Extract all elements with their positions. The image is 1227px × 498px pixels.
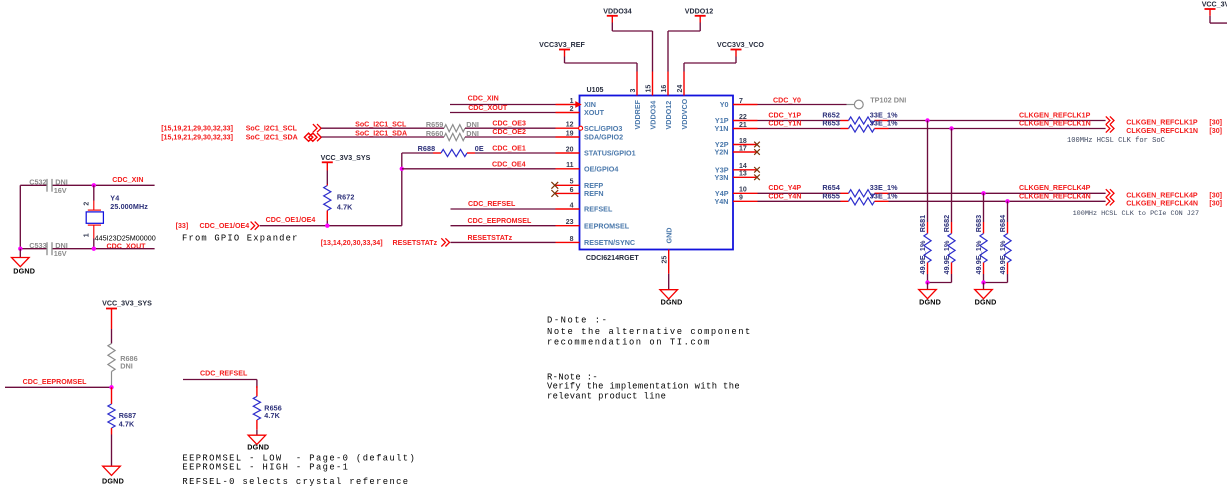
svg-text:VDDO34: VDDO34 xyxy=(648,101,657,130)
svg-text:VCC_3V3_SYS: VCC_3V3_SYS xyxy=(321,154,371,162)
wire left vertical (C532/C533 to DGND) xyxy=(19,185,21,248)
svg-text:1: 1 xyxy=(84,233,91,237)
svg-text:25.000MHz: 25.000MHz xyxy=(110,202,148,211)
U105 pin 12 (SCL/GPIO3) xyxy=(556,122,623,133)
svg-text:Y1N: Y1N xyxy=(715,124,729,133)
svg-text:VCC3V3_REF: VCC3V3_REF xyxy=(539,41,585,49)
node junction Y1N / R682 xyxy=(949,126,953,130)
svg-text:49.9E_1%: 49.9E_1% xyxy=(998,240,1007,274)
svg-text:0E: 0E xyxy=(475,144,484,153)
svg-text:VDDO12: VDDO12 xyxy=(685,7,713,15)
U105 pin 19 (SDA/GPIO2) xyxy=(556,130,624,141)
wire CDC_EEPROMSEL to pin 23 xyxy=(451,217,556,226)
resistor R682 49.9E_1% xyxy=(942,129,955,283)
svg-text:CDC_REFSEL: CDC_REFSEL xyxy=(468,200,516,208)
wire SoC_I2C1_SCL xyxy=(321,120,444,128)
node junction CDC_XIN / crystal pin 2 xyxy=(92,183,96,187)
svg-text:16V: 16V xyxy=(54,186,67,195)
power VCC_3V3_SYS (EEPROMSEL pull-up) xyxy=(102,300,152,344)
svg-text:14: 14 xyxy=(739,163,747,170)
U105 pin 5 (REFP) xyxy=(556,179,604,190)
no-connect X pin 17 Y2N xyxy=(754,149,760,155)
node junction R683/R684 tie xyxy=(981,280,985,284)
ground DGND (R683/R684) xyxy=(975,283,997,307)
svg-text:CDC_OE1/OE4: CDC_OE1/OE4 xyxy=(266,216,316,224)
resistor R672 4.7K xyxy=(324,171,355,226)
svg-text:SoC_I2C1_SDA: SoC_I2C1_SDA xyxy=(246,134,298,142)
off-page connector SoC_I2C1_SCL xyxy=(161,124,321,133)
svg-text:4.7K: 4.7K xyxy=(119,419,135,428)
U105 pin 3 (VDDREF) xyxy=(630,72,642,130)
wire R681-R682 bottom tie xyxy=(928,282,952,284)
off-page connector SoC_I2C1_SDA xyxy=(161,133,321,141)
svg-text:2: 2 xyxy=(84,202,91,206)
node junction Y1P / R681 xyxy=(925,118,929,122)
svg-text:CDC_OE1/OE4: CDC_OE1/OE4 xyxy=(200,222,250,230)
node junction riser / CDC_OE4 branch xyxy=(400,167,404,171)
svg-text:CDCI6214RGET: CDCI6214RGET xyxy=(586,254,639,262)
no-connect X pin 13 Y3N xyxy=(754,175,760,181)
svg-text:[30]: [30] xyxy=(1209,119,1222,127)
svg-text:49.9E_1%: 49.9E_1% xyxy=(942,240,951,274)
power VCC3V3_VCO (pin 24) xyxy=(684,41,764,72)
power VCC_3V3 (top right corner, clipped) xyxy=(1202,0,1227,23)
power VCC3V3_REF (pin 3) xyxy=(539,41,637,72)
svg-text:R681: R681 xyxy=(918,215,927,233)
svg-text:CDC_Y0: CDC_Y0 xyxy=(773,96,801,104)
svg-text:4.7K: 4.7K xyxy=(337,202,353,211)
svg-text:CLKGEN_REFCLK4P: CLKGEN_REFCLK4P xyxy=(1126,191,1198,199)
svg-text:12: 12 xyxy=(566,122,574,129)
wire CDC_XIN to pin 1 xyxy=(450,95,556,105)
svg-text:XOUT: XOUT xyxy=(584,108,605,117)
svg-text:R688: R688 xyxy=(418,144,436,153)
svg-text:OE/GPIO4: OE/GPIO4 xyxy=(584,164,618,173)
svg-text:REFSEL: REFSEL xyxy=(584,205,613,214)
svg-text:CDC_OE1: CDC_OE1 xyxy=(492,144,526,152)
svg-text:CDC_OE2: CDC_OE2 xyxy=(492,128,526,136)
svg-text:[30]: [30] xyxy=(1209,127,1222,135)
svg-text:VDDO34: VDDO34 xyxy=(603,7,631,15)
svg-text:DNI: DNI xyxy=(120,361,133,370)
wire SoC_I2C1_SDA xyxy=(321,129,444,137)
wire CDC_EEPROMSEL (bottom left) xyxy=(5,378,112,387)
no-connect X pin 18 Y2P xyxy=(754,142,760,148)
svg-text:8: 8 xyxy=(570,236,574,243)
wire/resistor R653 33E_1% CDC_Y1N -> CLKGEN_REFCLK1N xyxy=(758,118,1223,134)
crystal Y4 25.000MHz xyxy=(84,185,156,248)
svg-text:[30]: [30] xyxy=(1209,191,1222,199)
text D-Note xyxy=(547,316,752,348)
svg-text:SCL/GPIO3: SCL/GPIO3 xyxy=(584,124,622,133)
node junction Y4P / R683 xyxy=(981,191,985,195)
svg-text:CDC_Y1P: CDC_Y1P xyxy=(768,111,801,119)
svg-text:CLKGEN_REFCLK4N: CLKGEN_REFCLK4N xyxy=(1019,192,1091,200)
U105 pin 22 (Y1P) xyxy=(715,114,758,125)
text R-Note xyxy=(547,373,740,402)
U105 pin 6 (REFN) xyxy=(556,187,604,198)
svg-text:CDC_Y1N: CDC_Y1N xyxy=(768,119,801,127)
U105 pin 8 (RESETN/SYNC) xyxy=(556,236,636,247)
power VDDO12 (pin 16) xyxy=(668,7,713,71)
svg-text:15: 15 xyxy=(645,85,652,93)
svg-text:TP102 DNI: TP102 DNI xyxy=(870,95,906,104)
U105 pin 25 (GND) xyxy=(662,228,674,274)
wire OE1/OE4 vertical riser xyxy=(401,153,403,226)
wire CDC_OE3 to pin 12 xyxy=(465,119,556,128)
svg-text:R682: R682 xyxy=(942,215,951,233)
svg-text:R683: R683 xyxy=(974,215,983,233)
svg-text:445I23D25M00000: 445I23D25M00000 xyxy=(95,234,156,243)
svg-text:REFN: REFN xyxy=(584,189,604,198)
svg-text:4.7K: 4.7K xyxy=(264,411,280,420)
svg-text:CDC_OE4: CDC_OE4 xyxy=(492,160,526,168)
wire R683-R684 bottom tie xyxy=(984,282,1008,284)
svg-text:C533: C533 xyxy=(29,241,46,250)
off-page connector CDC_OE1/OE4 from GPIO expander xyxy=(176,222,259,230)
svg-text:Verify the implementation with: Verify the implementation with the xyxy=(547,382,740,392)
resistor R660 (DNI) xyxy=(426,129,479,141)
svg-text:100MHz HCSL CLK to PCIe CON J2: 100MHz HCSL CLK to PCIe CON J27 xyxy=(1073,210,1199,218)
wire CDC_OE1 to pin 20 xyxy=(475,144,556,153)
svg-text:DGND: DGND xyxy=(975,297,997,306)
svg-text:STATUS/GPIO1: STATUS/GPIO1 xyxy=(584,149,636,158)
resistor R684 49.9E_1% xyxy=(998,201,1011,282)
U105 pin 17 (Y2N) xyxy=(715,145,758,156)
svg-text:CDC_Y4N: CDC_Y4N xyxy=(768,192,801,200)
wire/resistor R652 33E_1% CDC_Y1P -> CLKGEN_REFCLK1P xyxy=(758,110,1223,126)
wire/resistor R654 33E_1% CDC_Y4P -> CLKGEN_REFCLK4P xyxy=(758,183,1223,199)
wire RESETSTATz to pin 8 xyxy=(451,234,556,242)
U105 pin 24 (VDDVCO) xyxy=(677,72,689,130)
node junction CDC_XOUT / crystal pin 1 xyxy=(92,247,96,251)
svg-text:11: 11 xyxy=(566,162,574,169)
node junction R686/R687/EEPROMSEL xyxy=(109,385,113,389)
testpoint TP102 DNI xyxy=(847,95,907,109)
U105 pin 2 (XOUT) xyxy=(556,106,605,117)
U105 pin 15 (VDDO34) xyxy=(645,72,657,130)
node junction R672 / OE1-OE4 wire xyxy=(325,224,329,228)
resistor R656 4.7K xyxy=(253,386,282,435)
wire CDC_OE4 to pin 11 xyxy=(402,160,556,169)
svg-text:Y3N: Y3N xyxy=(715,173,729,182)
svg-text:CLKGEN_REFCLK1N: CLKGEN_REFCLK1N xyxy=(1126,127,1198,135)
svg-text:RESETN/SYNC: RESETN/SYNC xyxy=(584,238,635,247)
svg-text:10: 10 xyxy=(739,187,747,194)
svg-text:recommendation on TI.com: recommendation on TI.com xyxy=(547,337,711,347)
resistor R681 49.9E_1% xyxy=(918,121,931,283)
svg-text:REFSEL-0 selects crystal refer: REFSEL-0 selects crystal reference xyxy=(182,477,409,487)
net label CDC_XIN (crystal) xyxy=(112,176,143,184)
svg-text:D-Note :-: D-Note :- xyxy=(547,316,608,326)
wire CDC_OE2 to pin 19 xyxy=(465,128,556,137)
U105 pin 14 (Y3P) xyxy=(715,163,758,174)
svg-text:DGND: DGND xyxy=(247,442,269,451)
U105 pin 1 (XIN) xyxy=(556,98,596,109)
power VCC_3V3_SYS (pull-up) xyxy=(321,154,371,171)
resistor R686 DNI xyxy=(108,344,138,388)
svg-text:DGND: DGND xyxy=(102,477,124,486)
U105 pin 16 (VDDO12) xyxy=(661,72,673,130)
wire CDC_XOUT bottom segment (crystal) xyxy=(20,248,154,250)
ground DGND (R687) xyxy=(102,466,124,485)
off-page connector RESETSTATz xyxy=(321,238,450,247)
svg-text:VCC3V3_VCO: VCC3V3_VCO xyxy=(717,41,764,49)
wire to R688 xyxy=(402,152,433,154)
svg-text:16V: 16V xyxy=(54,249,67,258)
text EEPROMSEL notes xyxy=(182,454,416,473)
svg-text:[13,14,20,30,33,34]: [13,14,20,30,33,34] xyxy=(321,239,383,247)
text 100MHz HCSL CLK to PCIe CON J27 xyxy=(1073,210,1199,218)
power VDDO34 (pin 15) xyxy=(603,7,652,71)
svg-text:RESETSTATz: RESETSTATz xyxy=(468,234,513,242)
svg-text:CDC_Y4P: CDC_Y4P xyxy=(768,184,801,192)
svg-text:SoC_I2C1_SCL: SoC_I2C1_SCL xyxy=(355,120,407,128)
svg-text:20: 20 xyxy=(566,146,574,153)
svg-text:[30]: [30] xyxy=(1209,200,1222,208)
text From GPIO Expander xyxy=(182,234,299,244)
wire CDC_Y0 xyxy=(758,96,847,104)
svg-text:19: 19 xyxy=(566,130,574,137)
svg-text:DGND: DGND xyxy=(661,297,683,306)
svg-text:33E_1%: 33E_1% xyxy=(870,118,898,127)
ground DGND (crystal) xyxy=(12,249,36,276)
svg-text:CLKGEN_REFCLK1P: CLKGEN_REFCLK1P xyxy=(1019,111,1091,119)
svg-text:R660: R660 xyxy=(426,129,443,138)
svg-text:[15,19,21,29,30,32,33]: [15,19,21,29,30,32,33] xyxy=(161,125,233,133)
U105 pin 11 (OE/GPIO4) xyxy=(556,162,619,173)
capacitor C532 (DNI) xyxy=(29,178,68,195)
no-connect X pin 5 REFP xyxy=(551,182,558,189)
svg-text:[15,19,21,29,30,32,33]: [15,19,21,29,30,32,33] xyxy=(161,134,233,142)
svg-text:25: 25 xyxy=(662,256,669,264)
svg-text:23: 23 xyxy=(566,219,574,226)
svg-text:GND: GND xyxy=(665,228,674,244)
U105 pin 10 (Y4P) xyxy=(715,187,758,198)
U105 pin 7 (Y0) xyxy=(720,98,758,109)
svg-text:5: 5 xyxy=(570,179,574,186)
svg-text:CDC_EEPROMSEL: CDC_EEPROMSEL xyxy=(23,378,88,386)
node junction left vertical / bottom wire xyxy=(18,247,22,251)
U105 pin 4 (REFSEL) xyxy=(556,202,613,213)
svg-text:From GPIO Expander: From GPIO Expander xyxy=(182,234,299,244)
net label CDC_REFSEL (bottom) xyxy=(200,370,248,378)
svg-text:Note the alternative component: Note the alternative component xyxy=(547,327,752,337)
capacitor C533 (DNI) xyxy=(29,241,68,258)
svg-text:DGND: DGND xyxy=(13,266,35,275)
svg-text:VDDREF: VDDREF xyxy=(633,99,642,129)
svg-text:Y2N: Y2N xyxy=(715,148,729,157)
svg-text:1: 1 xyxy=(570,98,574,105)
svg-text:DGND: DGND xyxy=(919,297,941,306)
wire CDC_OE1/OE4 horizontal xyxy=(260,216,402,226)
svg-text:VCC_3V3_SYS: VCC_3V3_SYS xyxy=(1202,0,1227,8)
resistor R687 4.7K xyxy=(108,387,136,466)
svg-text:Y0: Y0 xyxy=(720,100,729,109)
svg-text:CLKGEN_REFCLK1N: CLKGEN_REFCLK1N xyxy=(1019,119,1091,127)
resistor R683 49.9E_1% xyxy=(974,193,987,282)
svg-text:R655: R655 xyxy=(822,191,840,200)
svg-text:VCC_3V3_SYS: VCC_3V3_SYS xyxy=(102,300,152,308)
svg-text:CDC_EEPROMSEL: CDC_EEPROMSEL xyxy=(468,217,533,225)
wire CDC_REFSEL to pin 4 xyxy=(451,200,556,209)
net label CDC_XOUT (crystal) xyxy=(107,242,147,250)
text 100MHz HCSL CLK for SoC xyxy=(1067,137,1165,145)
svg-text:[33]: [33] xyxy=(176,222,189,230)
svg-text:9: 9 xyxy=(739,195,743,202)
svg-text:CDC_REFSEL: CDC_REFSEL xyxy=(200,370,248,378)
svg-text:R659: R659 xyxy=(426,120,443,129)
svg-text:U105: U105 xyxy=(587,86,604,94)
U105 pin 20 (STATUS/GPIO1) xyxy=(556,146,636,157)
svg-text:3: 3 xyxy=(630,89,637,93)
svg-text:SDA/GPIO2: SDA/GPIO2 xyxy=(584,133,623,142)
svg-text:24: 24 xyxy=(677,85,684,93)
svg-text:18: 18 xyxy=(739,138,747,145)
svg-text:6: 6 xyxy=(570,187,574,194)
wire/resistor R655 33E_1% CDC_Y4N -> CLKGEN_REFCLK4N xyxy=(758,191,1223,207)
text REFSEL note xyxy=(182,477,409,487)
wire CDC_XIN top segment (crystal) xyxy=(20,184,154,186)
svg-text:SoC_I2C1_SDA: SoC_I2C1_SDA xyxy=(355,129,407,137)
svg-text:CDC_XOUT: CDC_XOUT xyxy=(468,104,508,112)
svg-text:CDC_OE3: CDC_OE3 xyxy=(492,119,526,127)
IC U105 CDCI6214RGET body xyxy=(580,86,734,262)
svg-text:CDC_XIN: CDC_XIN xyxy=(468,95,499,103)
svg-text:CLKGEN_REFCLK4N: CLKGEN_REFCLK4N xyxy=(1126,200,1198,208)
no-connect X pin 14 Y3P xyxy=(754,167,760,173)
svg-text:C532: C532 xyxy=(29,178,46,187)
svg-text:R672: R672 xyxy=(337,192,355,201)
svg-text:relevant product line: relevant product line xyxy=(547,391,666,401)
svg-text:RESETSTATz: RESETSTATz xyxy=(393,239,438,247)
svg-text:EEPROMSEL: EEPROMSEL xyxy=(584,221,630,230)
U105 pin 18 (Y2P) xyxy=(715,138,758,149)
svg-text:CLKGEN_REFCLK1P: CLKGEN_REFCLK1P xyxy=(1126,119,1198,127)
svg-text:49.9E_1%: 49.9E_1% xyxy=(918,240,927,274)
svg-text:VDDO12: VDDO12 xyxy=(664,101,673,130)
svg-text:EEPROMSEL - HIGH - Page-1: EEPROMSEL - HIGH - Page-1 xyxy=(182,463,349,473)
wire CDC_XOUT to pin 2 xyxy=(450,104,556,113)
ground DGND (U105 pin 25) xyxy=(660,274,683,307)
ground DGND (R681/R682) xyxy=(919,283,941,307)
U105 pin 23 (EEPROMSEL) xyxy=(556,219,630,230)
U105 pin 21 (Y1N) xyxy=(715,122,758,133)
svg-text:VDDVCO: VDDVCO xyxy=(680,98,689,129)
svg-text:SoC_I2C1_SCL: SoC_I2C1_SCL xyxy=(246,125,298,133)
svg-text:22: 22 xyxy=(739,114,747,121)
svg-text:21: 21 xyxy=(739,122,747,129)
svg-text:4: 4 xyxy=(570,202,574,209)
svg-text:49.9E_1%: 49.9E_1% xyxy=(974,240,983,274)
svg-text:33E_1%: 33E_1% xyxy=(870,191,898,200)
svg-text:Y4N: Y4N xyxy=(715,197,729,206)
svg-text:100MHz HCSL CLK for SoC: 100MHz HCSL CLK for SoC xyxy=(1067,137,1165,145)
svg-text:16: 16 xyxy=(661,85,668,93)
ground DGND (R656) xyxy=(247,435,269,451)
wire CDC_REFSEL to R656 xyxy=(183,380,257,389)
svg-text:R684: R684 xyxy=(998,215,1007,233)
node junction R681/R682 tie xyxy=(925,280,929,284)
svg-text:7: 7 xyxy=(739,98,743,105)
U105 pin 9 (Y4N) xyxy=(715,195,758,206)
svg-text:2: 2 xyxy=(570,106,574,113)
resistor R688 0E xyxy=(418,144,484,156)
svg-text:17: 17 xyxy=(739,145,747,152)
svg-text:13: 13 xyxy=(739,171,747,178)
no-connect X pin 6 REFN xyxy=(551,190,558,197)
svg-text:CDC_XIN: CDC_XIN xyxy=(112,176,143,184)
svg-text:CLKGEN_REFCLK4P: CLKGEN_REFCLK4P xyxy=(1019,184,1091,192)
svg-text:R653: R653 xyxy=(822,118,840,127)
node junction Y4N / R684 xyxy=(1005,199,1009,203)
U105 pin 13 (Y3N) xyxy=(715,171,758,182)
resistor R659 (DNI) xyxy=(426,120,479,132)
